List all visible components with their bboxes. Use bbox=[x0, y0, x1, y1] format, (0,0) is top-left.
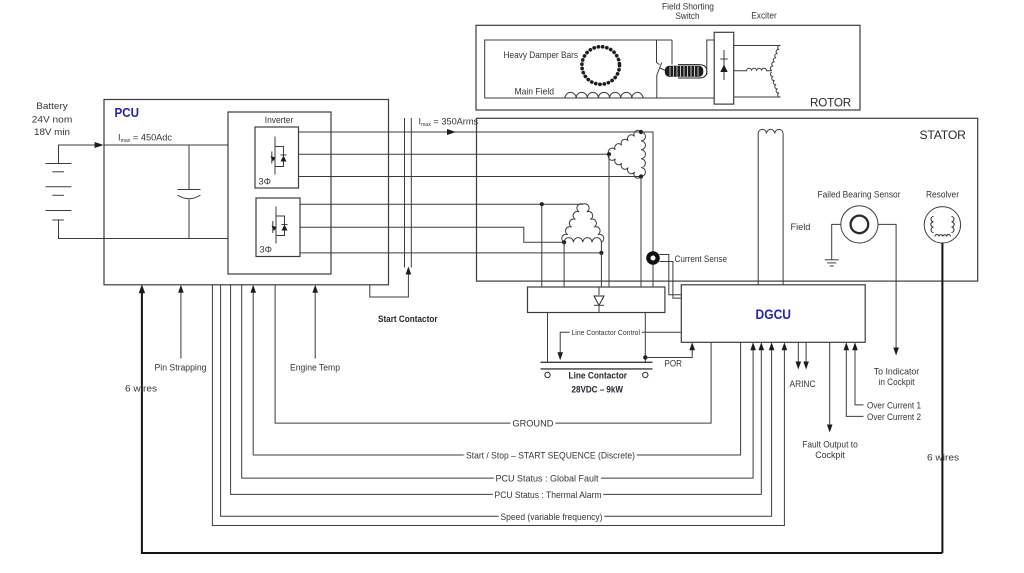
svg-text:Failed Bearing Sensor: Failed Bearing Sensor bbox=[818, 190, 901, 200]
svg-text:To Indicator: To Indicator bbox=[874, 367, 920, 377]
arrowhead spare into DGCU bbox=[782, 342, 788, 350]
rotor box bbox=[476, 25, 860, 110]
arrowhead pin strapping into PCU bbox=[178, 285, 184, 293]
svg-text:PCU: PCU bbox=[115, 105, 140, 120]
exciter winding bbox=[734, 45, 781, 97]
wire upper delta top to rectifier bus bbox=[641, 132, 653, 287]
wire GROUND bbox=[275, 285, 711, 423]
svg-text:Inverter: Inverter bbox=[265, 115, 294, 125]
svg-text:Start / Stop – START SEQUENCE: Start / Stop – START SEQUENCE (Discrete) bbox=[466, 451, 635, 461]
svg-text:18V min: 18V min bbox=[34, 127, 70, 137]
shorting coil R1 bbox=[665, 66, 704, 77]
wire lower delta left down bbox=[563, 242, 565, 287]
wire phase line 4 bbox=[300, 203, 583, 205]
node phase 6 tap bbox=[599, 251, 603, 255]
wire DC bus negative rail bbox=[104, 238, 228, 240]
svg-text:POR: POR bbox=[665, 359, 683, 369]
svg-text:Over Current 1: Over Current 1 bbox=[867, 400, 921, 410]
wire Fault Output bbox=[829, 342, 831, 426]
start contactor poles bbox=[404, 118, 406, 268]
stator winding lower delta bbox=[562, 204, 604, 243]
stator field winding L2 bbox=[758, 129, 783, 133]
wire phase line 5 bbox=[300, 227, 564, 242]
svg-text:DGCU: DGCU bbox=[756, 307, 792, 322]
wire spare discrete bbox=[212, 285, 784, 526]
svg-text:24V nom: 24V nom bbox=[32, 115, 73, 125]
IGBT U1 symbol bbox=[272, 137, 284, 175]
svg-text:Resolver: Resolver bbox=[926, 190, 959, 200]
svg-text:ARINC: ARINC bbox=[790, 379, 816, 389]
svg-text:Engine Temp: Engine Temp bbox=[290, 362, 340, 372]
node phase 4 tap bbox=[540, 202, 544, 206]
wire Over Current 2 bbox=[846, 348, 863, 416]
svg-text:Line Contactor: Line Contactor bbox=[569, 371, 628, 381]
svg-text:Exciter: Exciter bbox=[751, 11, 777, 21]
svg-text:3Φ: 3Φ bbox=[259, 177, 271, 187]
wire phase line 3 bbox=[299, 176, 642, 178]
svg-text:Cockpit: Cockpit bbox=[815, 450, 845, 460]
wire sensor to cockpit indicator bbox=[878, 224, 896, 349]
wire upper delta left down bbox=[608, 154, 610, 287]
battery BT1 bbox=[46, 164, 72, 221]
svg-text:ROTOR: ROTOR bbox=[810, 96, 851, 110]
svg-text:GROUND: GROUND bbox=[513, 419, 554, 429]
svg-text:PCU Status : Thermal Alarm: PCU Status : Thermal Alarm bbox=[495, 490, 602, 500]
wire Start/Stop bbox=[253, 290, 740, 455]
wire phase line 2 bbox=[299, 153, 610, 155]
IGBT U2 symbol bbox=[273, 207, 285, 244]
heavy damper bars ring bbox=[582, 47, 620, 85]
arrowhead up into contactor bbox=[406, 267, 412, 275]
wire start contactor actuation bbox=[370, 272, 409, 297]
arrowhead 6 wires into PCU bbox=[139, 284, 145, 293]
IGBT module U1 box bbox=[255, 127, 299, 188]
svg-text:Heavy Damper Bars: Heavy Damper Bars bbox=[504, 50, 579, 60]
current sense CT bbox=[646, 251, 660, 265]
arrowhead engine temp into PCU bbox=[312, 285, 318, 293]
wire Pin Strapping bbox=[180, 290, 182, 359]
svg-text:3Φ: 3Φ bbox=[260, 245, 272, 255]
node upper delta bottom bbox=[639, 174, 643, 178]
arrowhead POR into DGCU bbox=[689, 342, 695, 350]
resolver R2 bbox=[924, 207, 960, 243]
wire phase 4 tap down bbox=[541, 204, 543, 287]
node lower delta left bbox=[562, 240, 566, 244]
arrowhead contactor control bbox=[557, 352, 563, 360]
svg-text:Pin Strapping: Pin Strapping bbox=[155, 362, 207, 372]
svg-text:Fault Output to: Fault Output to bbox=[802, 440, 858, 450]
wire phase line 6 bbox=[300, 252, 601, 254]
svg-text:Line Contactor Control: Line Contactor Control bbox=[572, 329, 641, 337]
node upper delta top bbox=[639, 130, 643, 134]
arrowhead start/stop into PCU bbox=[250, 285, 256, 293]
svg-text:Current Sense: Current Sense bbox=[675, 254, 728, 264]
node POR tap bbox=[643, 355, 647, 359]
wire Over Current 1 bbox=[855, 348, 864, 405]
wire upper delta bottom down bbox=[640, 177, 642, 288]
svg-text:Field: Field bbox=[791, 222, 811, 232]
svg-text:Speed (variable frequency): Speed (variable frequency) bbox=[501, 512, 603, 522]
wire coil to rectifier bbox=[707, 40, 714, 75]
wire PCU Status Global Fault bbox=[242, 285, 753, 478]
wire rectifier to contactor left bbox=[547, 313, 549, 362]
svg-text:Over Current 2: Over Current 2 bbox=[867, 412, 921, 422]
arrowhead global fault into DGCU bbox=[750, 342, 756, 350]
main field winding L1 bbox=[565, 92, 643, 98]
wire 6 wires PCU loop bbox=[142, 291, 943, 553]
failed bearing sensor B1 bbox=[841, 206, 878, 243]
wire battery negative to PCU bbox=[59, 220, 105, 239]
node upper delta left bbox=[607, 152, 611, 156]
DGCU box bbox=[681, 285, 865, 343]
arrowhead into PCU bbox=[95, 142, 104, 148]
svg-text:6 wires: 6 wires bbox=[927, 453, 959, 463]
wire current sense pair to DGCU bbox=[660, 255, 682, 295]
stator box bbox=[477, 118, 978, 281]
svg-text:Start Contactor: Start Contactor bbox=[378, 314, 438, 324]
wire phase line 1 bbox=[299, 131, 642, 133]
svg-text:6 wires: 6 wires bbox=[125, 384, 157, 394]
svg-text:PCU Status : Global Fault: PCU Status : Global Fault bbox=[496, 474, 599, 484]
damper cage box bbox=[485, 40, 715, 98]
field shorting switch S1 bbox=[657, 40, 660, 65]
line contactor K1 bbox=[541, 361, 653, 363]
diode D1 bbox=[598, 287, 600, 295]
arrowhead thermal alarm into DGCU bbox=[759, 342, 765, 350]
wire DC bus positive rail bbox=[104, 144, 228, 146]
stator winding upper delta bbox=[608, 130, 645, 178]
wire lower delta right down bbox=[600, 242, 602, 287]
wire Speed bbox=[221, 285, 772, 517]
svg-text:Battery: Battery bbox=[36, 101, 68, 111]
rotating rectifier box bbox=[714, 32, 734, 104]
wire POR bbox=[645, 348, 692, 358]
svg-text:in Cockpit: in Cockpit bbox=[879, 377, 915, 387]
IGBT module U2 box bbox=[256, 198, 300, 257]
svg-text:Field Shorting: Field Shorting bbox=[662, 2, 714, 12]
PCU box bbox=[104, 100, 389, 285]
wire ARINC down arrows bbox=[797, 342, 799, 363]
rectifier diode D2 bbox=[723, 50, 725, 80]
wire resolver 6 wires down bbox=[941, 243, 943, 553]
svg-text:Switch: Switch bbox=[676, 11, 700, 21]
wire coil top feed bbox=[671, 40, 673, 65]
capacitor C1 bbox=[188, 145, 190, 190]
svg-text:28VDC – 9kW: 28VDC – 9kW bbox=[572, 385, 624, 395]
ground bbox=[825, 260, 839, 266]
arrowhead on phase line 1 bbox=[447, 129, 456, 135]
arrowhead to indicator bbox=[893, 348, 899, 356]
wire PCU Status Thermal Alarm bbox=[231, 285, 762, 495]
wire line contactor control bbox=[560, 331, 681, 333]
arrowhead speed into DGCU bbox=[769, 342, 775, 350]
wire sensor to ground bbox=[832, 224, 841, 259]
wire battery positive to PCU bbox=[59, 145, 102, 164]
wire Engine Temp bbox=[314, 290, 316, 359]
wire rectifier to contactor right bbox=[644, 313, 646, 362]
inverter box bbox=[228, 112, 331, 274]
svg-text:Main Field: Main Field bbox=[515, 87, 555, 97]
svg-text:STATOR: STATOR bbox=[920, 128, 967, 142]
rectifier assembly box bbox=[528, 287, 665, 313]
